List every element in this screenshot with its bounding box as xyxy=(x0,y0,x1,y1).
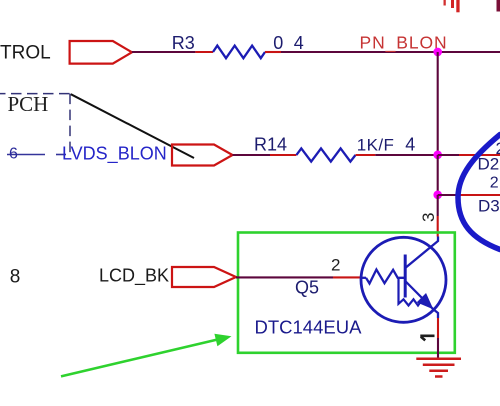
Q5 internal lead to resistor xyxy=(361,277,366,279)
wire junction2 down to Q5 pin 3 xyxy=(437,195,439,216)
resistor R3 body xyxy=(213,46,265,59)
resistor R14 left pin lead xyxy=(270,154,296,156)
pin lead segment 2 xyxy=(56,154,66,156)
wire LCD_BK connector to Q5 xyxy=(236,276,333,278)
svg-text:D2: D2 xyxy=(478,155,500,174)
Q5 emitter arrowhead xyxy=(418,294,432,308)
Q5 internal base resistor R1 xyxy=(366,270,405,284)
D2 pin lead red xyxy=(459,154,500,156)
svg-text:8: 8 xyxy=(10,267,21,288)
junction dot PN_BLON xyxy=(433,48,442,57)
Q5 pin 2 lead red xyxy=(333,276,361,278)
ground symbol bar 4 xyxy=(435,375,443,378)
wire R14 to junction xyxy=(375,154,437,156)
wire LVDS connector to R14 xyxy=(233,154,271,156)
pin number 1 (rotated) xyxy=(420,336,434,341)
port connector (LVDS_BLON net) xyxy=(172,145,233,166)
vertical wire PN_BLON down xyxy=(437,52,439,155)
wire R3 to junction xyxy=(281,51,438,53)
wire junction2 to D3 pin xyxy=(438,194,459,196)
pin lead (pin 6) xyxy=(7,154,45,156)
svg-text:DTC144EUA: DTC144EUA xyxy=(255,317,363,338)
svg-text:4: 4 xyxy=(405,135,415,155)
green highlight box xyxy=(238,233,455,353)
ground symbol bar 2 xyxy=(423,364,455,367)
top edge red text fragment 1 xyxy=(444,0,446,6)
resistor R14 right pin lead xyxy=(356,154,376,156)
svg-text:2: 2 xyxy=(490,174,499,191)
svg-text:LCD_BK: LCD_BK xyxy=(99,266,169,287)
svg-text:R14: R14 xyxy=(254,135,287,155)
Q5 collector line xyxy=(405,237,438,269)
resistor R3 right pin lead xyxy=(265,51,281,53)
Q5 base bar xyxy=(404,255,407,298)
D3 pin lead red xyxy=(459,194,500,196)
svg-text:6: 6 xyxy=(9,146,18,163)
green annotation arrow head xyxy=(214,334,231,347)
svg-text:D3: D3 xyxy=(478,197,500,216)
ground symbol bar 3 xyxy=(429,370,448,373)
svg-text:1K/F: 1K/F xyxy=(357,136,395,155)
junction dot R14 row xyxy=(433,151,442,160)
svg-text:3: 3 xyxy=(419,213,438,222)
PCH block dashed boundary vertical xyxy=(69,94,71,155)
junction dot D3 row xyxy=(433,191,442,200)
Q5 internal base-emitter resistor R2 xyxy=(399,278,423,306)
top edge maroon wire fragment xyxy=(497,0,500,12)
port connector (LCD_BK net) xyxy=(172,267,236,287)
callout line PCH to connector xyxy=(71,94,194,158)
transistor Q5 body circle xyxy=(361,237,446,322)
top edge red text fragment 3 xyxy=(456,0,459,12)
ground symbol bar 1 xyxy=(416,357,461,360)
wire junction to right edge xyxy=(438,51,500,53)
Q5 emitter line with arrow xyxy=(405,281,433,309)
svg-text:0: 0 xyxy=(273,33,283,53)
Q5 emitter bend to pin 1 xyxy=(433,309,438,318)
svg-text:PCH: PCH xyxy=(8,92,49,116)
svg-text:TROL: TROL xyxy=(0,43,51,64)
svg-text:LVDS_BLON: LVDS_BLON xyxy=(62,144,167,165)
svg-text:2: 2 xyxy=(331,256,340,275)
resistor R14 body xyxy=(296,148,355,161)
svg-text:4: 4 xyxy=(294,33,304,53)
Q5 pin 1 lead red xyxy=(437,318,439,338)
green annotation arrow shaft xyxy=(61,340,217,377)
wire from TROL connector to R3 xyxy=(132,51,196,53)
vertical wire junction to junction 2 xyxy=(437,155,439,195)
svg-text:Q5: Q5 xyxy=(295,277,319,297)
top edge red text fragment 2 xyxy=(451,0,454,8)
wire pin1 to ground xyxy=(437,338,439,358)
wire junction to D2 pin xyxy=(438,154,459,156)
port connector (TROL net) xyxy=(70,41,132,64)
svg-text:R3: R3 xyxy=(172,33,195,53)
big part body arc (LED/diode part) xyxy=(458,135,500,250)
PCH block dashed boundary horizontal xyxy=(0,93,70,95)
Q5 pin 3 lead red xyxy=(437,216,439,237)
resistor R3 left pin lead xyxy=(195,51,213,53)
